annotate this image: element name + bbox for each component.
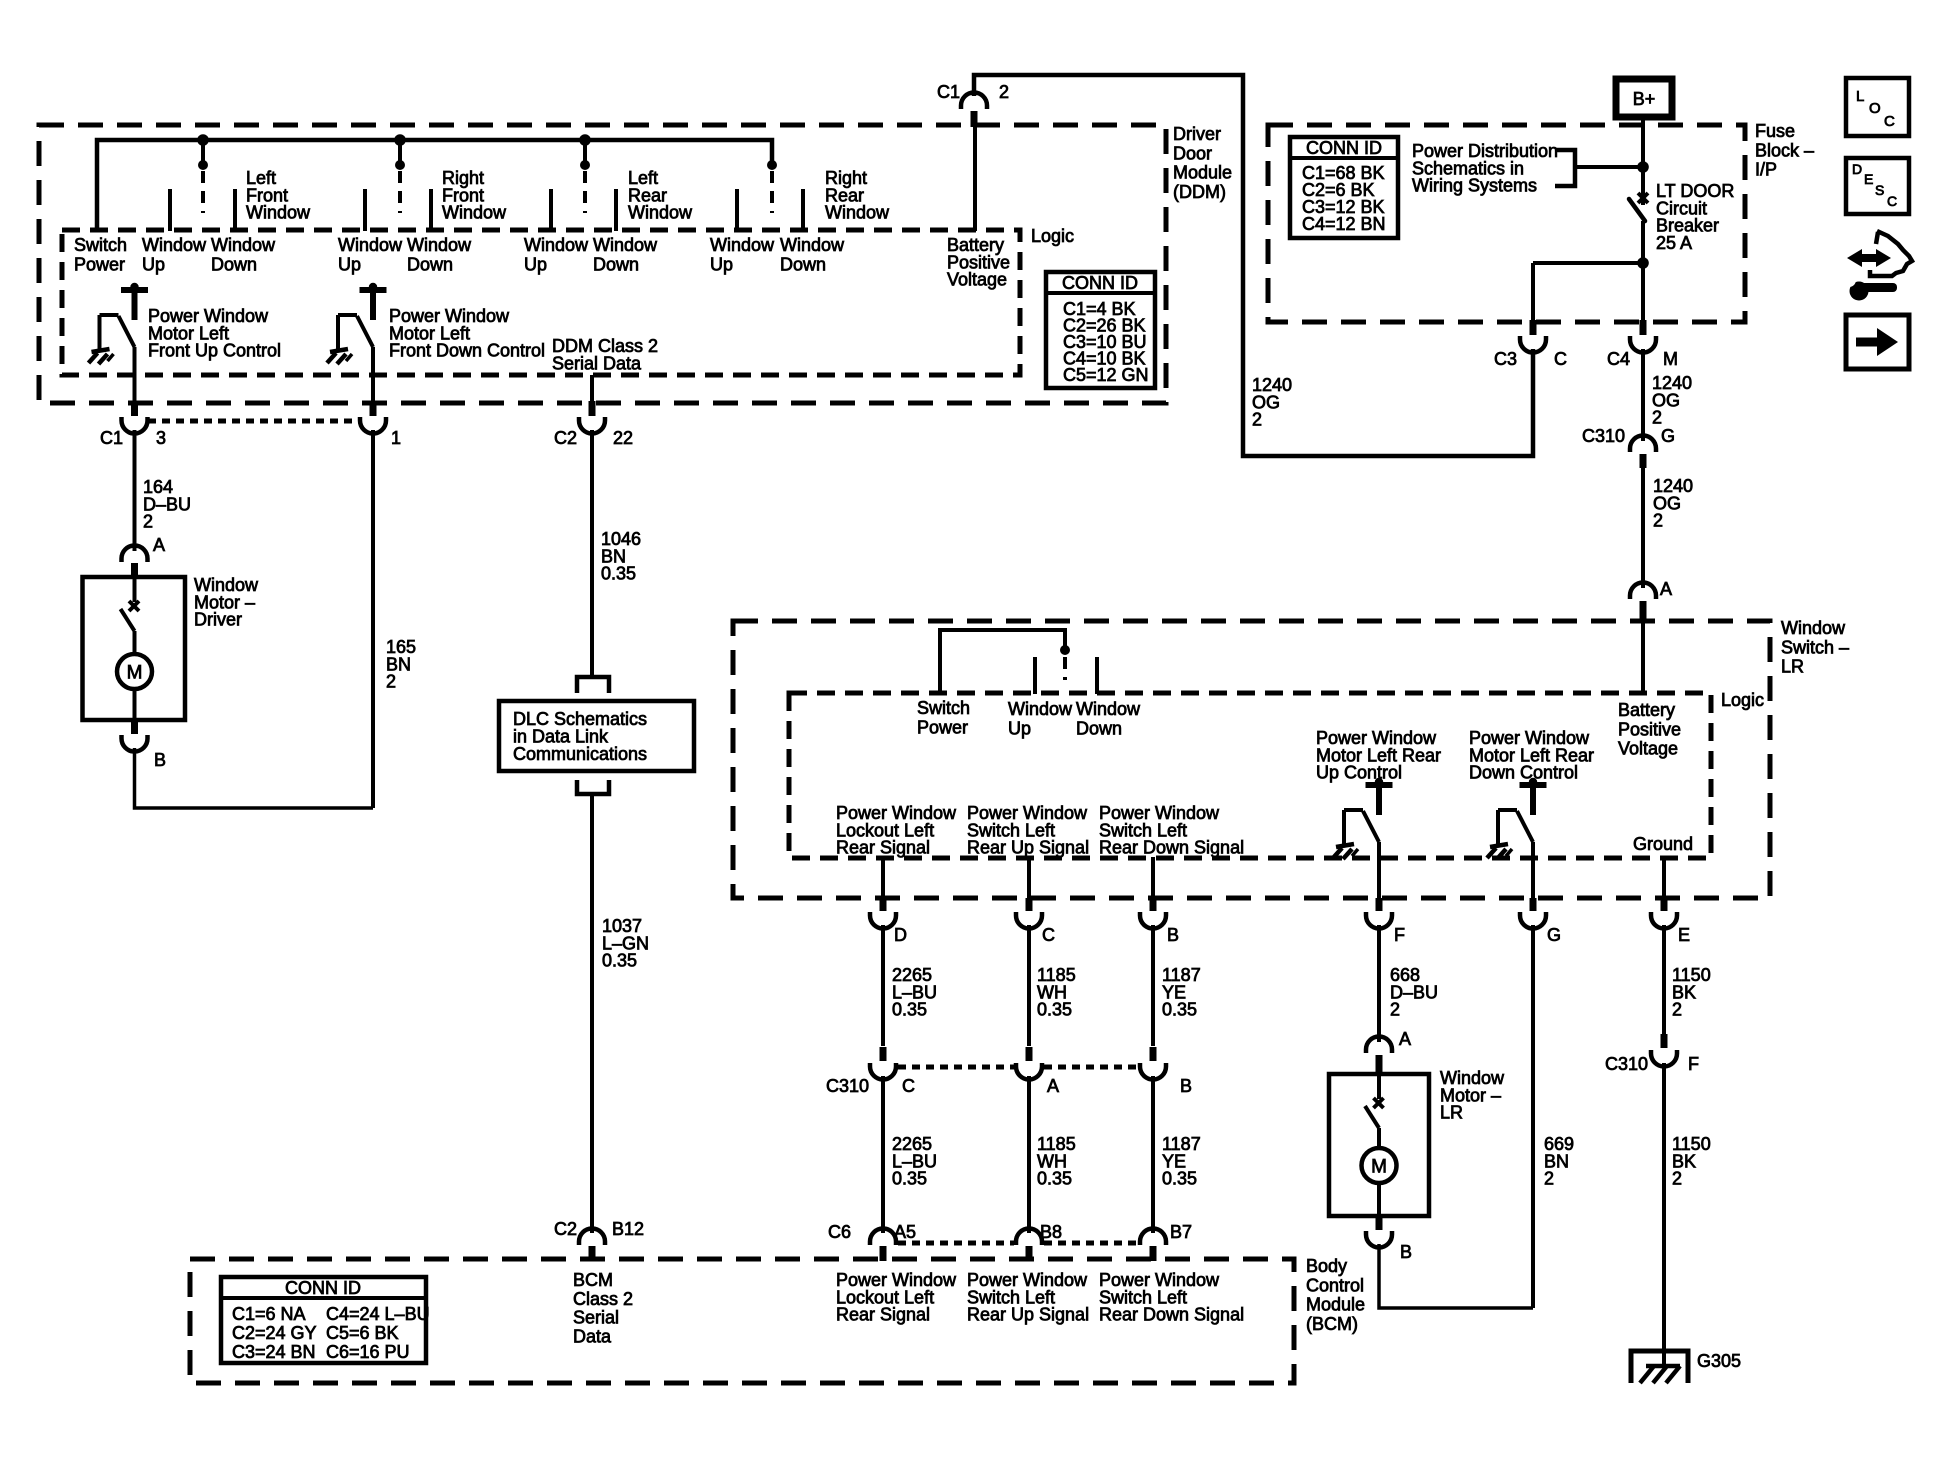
- svg-text:2: 2: [1653, 511, 1663, 531]
- pin label Battery Positive Voltage (DDM): [947, 235, 1010, 290]
- pin labels Window Up / Window Down (WS): [1008, 699, 1141, 739]
- logic box DDM: [62, 230, 1020, 375]
- svg-text:C: C: [1887, 193, 1897, 209]
- wire switch-power bus: [97, 140, 772, 231]
- svg-text:Body: Body: [1306, 1256, 1347, 1276]
- svg-text:3: 3: [156, 428, 166, 448]
- wire 164 D-BU: [133, 430, 137, 540]
- label Power Window Switch Left Rear Down Signal (BCM): [1099, 1270, 1244, 1325]
- label Fuse Block IP: [1755, 121, 1814, 180]
- wire label 164 D-BU 2: [143, 477, 191, 532]
- svg-text:C2=24 GY: C2=24 GY: [232, 1323, 317, 1343]
- label Logic (DDM): [1031, 226, 1074, 246]
- svg-text:Switch: Switch: [74, 235, 127, 255]
- connector C2 pin 22: [554, 401, 633, 448]
- svg-text:Front Up Control: Front Up Control: [148, 341, 281, 361]
- svg-text:Logic: Logic: [1031, 226, 1074, 246]
- svg-text:Module: Module: [1306, 1295, 1365, 1315]
- svg-text:0.35: 0.35: [1037, 1169, 1072, 1189]
- svg-text:Window: Window: [1076, 699, 1141, 719]
- wire motor LR B to 669: [1379, 1244, 1533, 1308]
- svg-text:Window: Window: [1781, 618, 1846, 638]
- svg-text:Communications: Communications: [513, 744, 647, 764]
- switch Power Window Motor Left Front Down Control: [327, 283, 387, 364]
- connector WS pin B: [1140, 898, 1179, 945]
- svg-text:C1: C1: [100, 428, 123, 448]
- module box Fuse Block IP: [1268, 125, 1745, 322]
- svg-text:LR: LR: [1781, 657, 1804, 677]
- motor M LR internals: [1362, 1074, 1397, 1216]
- svg-text:0.35: 0.35: [1162, 1000, 1197, 1020]
- svg-text:0.35: 0.35: [601, 564, 636, 584]
- connector C2 B12 BCM: [554, 1219, 644, 1261]
- svg-text:0.35: 0.35: [1037, 1000, 1072, 1020]
- svg-text:C6=16 PU: C6=16 PU: [326, 1342, 410, 1362]
- wire label 1185 WH 0.35 upper: [1037, 965, 1076, 1020]
- svg-text:Down: Down: [593, 255, 639, 275]
- svg-text:Power: Power: [74, 255, 125, 275]
- connector WS pin F: [1366, 898, 1405, 945]
- switch Motor Left Rear Up Control: [1333, 778, 1393, 859]
- svg-text:LR: LR: [1440, 1103, 1463, 1123]
- label Battery Positive Voltage (WS): [1618, 700, 1681, 759]
- icon LOC box: [1846, 78, 1909, 136]
- svg-text:Window: Window: [593, 235, 658, 255]
- svg-text:Rear Up Signal: Rear Up Signal: [967, 838, 1089, 858]
- svg-text:Up: Up: [338, 255, 361, 275]
- label Left Rear Window: [628, 168, 693, 223]
- label Power Window Switch Left Rear Up Signal (BCM): [967, 1270, 1089, 1325]
- svg-text:C3: C3: [1494, 349, 1517, 369]
- svg-text:Serial: Serial: [573, 1308, 619, 1328]
- label G305: [1697, 1351, 1741, 1371]
- connector B window motor LR: [1366, 1214, 1412, 1262]
- label Left Front Window: [246, 168, 311, 223]
- svg-text:Window: Window: [1008, 699, 1073, 719]
- svg-text:Up: Up: [524, 255, 547, 275]
- wire label 2265 L-BU 0.35 lower: [892, 1134, 937, 1189]
- svg-text:Fuse: Fuse: [1755, 121, 1795, 141]
- reference box DLC Schematics: [499, 701, 694, 771]
- svg-text:Down: Down: [211, 255, 257, 275]
- connector line dotted BCM row: [898, 1241, 1138, 1246]
- wire 1187 YE upper: [1151, 925, 1155, 1046]
- icon arrow box: [1846, 315, 1909, 369]
- label Logic (WS): [1721, 690, 1764, 710]
- svg-text:Rear Signal: Rear Signal: [836, 838, 930, 858]
- svg-text:Down: Down: [1076, 719, 1122, 739]
- svg-text:Up Control: Up Control: [1316, 763, 1402, 783]
- wire DDM pin3: [133, 347, 137, 401]
- svg-text:2: 2: [1544, 1169, 1554, 1189]
- svg-text:0.35: 0.35: [1162, 1169, 1197, 1189]
- pin label Switch Power: [74, 235, 127, 275]
- connector A window motor driver: [122, 535, 166, 578]
- svg-text:C1=6 NA: C1=6 NA: [232, 1304, 306, 1324]
- svg-text:2: 2: [1252, 410, 1262, 430]
- svg-text:CONN ID: CONN ID: [1306, 138, 1382, 158]
- wire 669 BN: [1531, 925, 1535, 1308]
- wire into A: [133, 540, 137, 551]
- connector C310 pin C: [870, 1047, 915, 1096]
- connector C1 pin 2 DDM: [937, 82, 1009, 127]
- svg-text:Ground: Ground: [1633, 834, 1693, 854]
- connector C310 pin F: [1605, 1034, 1699, 1074]
- svg-text:Control: Control: [1306, 1275, 1364, 1295]
- wire 1187 YE lower: [1151, 1076, 1155, 1233]
- svg-text:2: 2: [143, 512, 153, 532]
- svg-text:A5: A5: [894, 1222, 916, 1242]
- label Power Distribution reference: [1412, 141, 1558, 196]
- ground G305: [1631, 1351, 1688, 1383]
- svg-text:Down: Down: [407, 255, 453, 275]
- svg-text:G305: G305: [1697, 1351, 1741, 1371]
- wire stubs bus to dots: [203, 140, 585, 165]
- svg-text:C310: C310: [1582, 426, 1625, 446]
- label Window Switch LR: [1781, 618, 1849, 677]
- svg-text:Window: Window: [524, 235, 589, 255]
- svg-text:Battery: Battery: [1618, 700, 1675, 720]
- svg-text:S: S: [1875, 182, 1884, 198]
- svg-text:M: M: [1663, 349, 1678, 369]
- svg-text:Voltage: Voltage: [947, 270, 1007, 290]
- svg-text:2: 2: [999, 82, 1009, 102]
- svg-text:Window: Window: [710, 235, 775, 255]
- junction breaker output: [1533, 257, 1649, 322]
- svg-text:Window: Window: [246, 203, 311, 223]
- svg-text:C5=12 GN: C5=12 GN: [1063, 365, 1149, 385]
- svg-text:B: B: [1167, 925, 1179, 945]
- connector WS pin E: [1651, 898, 1690, 945]
- svg-text:Window: Window: [628, 203, 693, 223]
- svg-text:Window: Window: [442, 203, 507, 223]
- wire label 1240 OG 2 left: [1252, 375, 1292, 430]
- wire 1037 L-GN: [590, 794, 594, 1233]
- svg-text:Logic: Logic: [1721, 690, 1764, 710]
- svg-text:Up: Up: [142, 255, 165, 275]
- wire 1185 WH lower: [1027, 1076, 1031, 1233]
- connector line dotted C1: [148, 419, 360, 424]
- power symbol B+: [1616, 79, 1672, 117]
- svg-text:E: E: [1864, 171, 1873, 187]
- label LT DOOR Circuit Breaker 25 A: [1656, 181, 1734, 253]
- svg-text:M: M: [1371, 1157, 1387, 1178]
- svg-text:CONN ID: CONN ID: [285, 1278, 361, 1298]
- junction dots on bus: [197, 134, 591, 146]
- svg-text:Window: Window: [142, 235, 207, 255]
- svg-text:Window: Window: [780, 235, 845, 255]
- svg-text:25 A: 25 A: [1656, 233, 1692, 253]
- conn-id table BCM: [221, 1277, 430, 1363]
- svg-text:C: C: [1884, 113, 1895, 130]
- label Ground (WS): [1633, 834, 1693, 854]
- wire label 165 BN 2: [386, 637, 416, 692]
- switch Motor Left Rear Down Control: [1487, 778, 1547, 859]
- label C310 (mid): [826, 1076, 869, 1096]
- svg-text:Up: Up: [710, 255, 733, 275]
- wire label 1240 OG 2 lower: [1653, 476, 1693, 531]
- svg-text:Rear Down Signal: Rear Down Signal: [1099, 838, 1244, 858]
- svg-text:C4: C4: [1607, 349, 1630, 369]
- connector C310 pin B: [1140, 1047, 1192, 1096]
- svg-text:Positive: Positive: [1618, 719, 1681, 739]
- label Front Up Control switch: [148, 306, 281, 361]
- wire 1046 BN: [590, 430, 594, 677]
- svg-text:2: 2: [1672, 1000, 1682, 1020]
- connector WS pin D: [870, 898, 907, 945]
- svg-text:Switch –: Switch –: [1781, 637, 1849, 657]
- svg-text:BCM: BCM: [573, 1270, 613, 1290]
- wire motor B return loop: [135, 748, 374, 808]
- wire bracket to B+ line: [1575, 161, 1649, 173]
- svg-text:Down Control: Down Control: [1469, 763, 1578, 783]
- wire 2265 L-BU upper: [881, 925, 885, 1046]
- icon DESC box: [1846, 158, 1909, 214]
- connector BCM pin A5: [828, 1222, 916, 1261]
- svg-text:Block –: Block –: [1755, 140, 1814, 160]
- connector C1 pin 1: [360, 401, 401, 448]
- svg-text:C: C: [902, 1076, 915, 1096]
- wire label 1240 OG 2 right: [1652, 373, 1692, 428]
- fixed contact terminals: [170, 189, 803, 231]
- svg-text:C6: C6: [828, 1222, 851, 1242]
- wire battery positive into DDM logic: [973, 127, 977, 231]
- connector BCM pin B8: [1016, 1222, 1062, 1261]
- connector C4 pin M: [1607, 320, 1678, 369]
- svg-text:A: A: [153, 535, 165, 555]
- wires out of WS logic: [883, 842, 1664, 900]
- wire C4 to C310: [1641, 349, 1645, 441]
- svg-text:B8: B8: [1040, 1222, 1062, 1242]
- svg-text:A: A: [1047, 1076, 1059, 1096]
- svg-text:F: F: [1688, 1054, 1699, 1074]
- label Right Front Window: [442, 168, 507, 223]
- svg-text:2: 2: [1390, 1000, 1400, 1020]
- svg-text:22: 22: [613, 428, 633, 448]
- off-page bracket power distribution: [1555, 150, 1575, 186]
- svg-text:Front Down Control: Front Down Control: [389, 341, 545, 361]
- svg-text:(DDM): (DDM): [1173, 182, 1226, 202]
- svg-text:Voltage: Voltage: [1618, 739, 1678, 759]
- wire label 1187 YE 0.35 lower: [1162, 1134, 1201, 1189]
- wire C3 feed to DDM: [974, 75, 1533, 456]
- svg-text:C5=6 BK: C5=6 BK: [326, 1323, 399, 1343]
- off-page bracket lower DLC: [577, 780, 609, 794]
- svg-text:(BCM): (BCM): [1306, 1314, 1358, 1334]
- circuit breaker LT DOOR 25A: [1629, 191, 1648, 322]
- label Power Window Switch Left Rear Down Signal (WS): [1099, 803, 1244, 858]
- wire label 1187 YE 0.35 upper: [1162, 965, 1201, 1020]
- svg-text:D: D: [1852, 161, 1862, 177]
- label Power Window Lockout Left Rear Signal (WS): [836, 803, 957, 858]
- svg-text:G: G: [1547, 925, 1561, 945]
- connector C1 pin 3: [100, 401, 166, 448]
- icon double arrow wrench: [1842, 231, 1912, 301]
- svg-text:Down: Down: [780, 255, 826, 275]
- svg-text:2: 2: [1652, 408, 1662, 428]
- svg-text:2: 2: [1672, 1169, 1682, 1189]
- wire label 1185 WH 0.35 lower: [1037, 1134, 1076, 1189]
- rocker switch window up/down: [940, 630, 1097, 694]
- wire label 669 BN 2: [1544, 1134, 1574, 1189]
- wire label 1150 BK 2 lower: [1672, 1134, 1711, 1189]
- svg-text:Up: Up: [1008, 719, 1031, 739]
- svg-text:C2: C2: [554, 428, 577, 448]
- module box DDM (Driver Door Module): [39, 125, 1166, 403]
- label DDM Class 2 Serial Data: [552, 336, 658, 373]
- wire 668 D-BU: [1377, 925, 1381, 1042]
- svg-text:C310: C310: [826, 1076, 869, 1096]
- svg-text:1: 1: [391, 428, 401, 448]
- svg-text:Driver: Driver: [194, 610, 242, 630]
- label Power Window Switch Left Rear Up Signal (WS): [967, 803, 1089, 858]
- svg-text:Window: Window: [825, 203, 890, 223]
- conn-id table DDM: [1046, 272, 1155, 388]
- svg-text:G: G: [1661, 426, 1675, 446]
- connector BCM pin B7: [1140, 1222, 1192, 1261]
- label Front Down Control switch: [389, 306, 545, 361]
- connector C310 pin A: [1016, 1047, 1059, 1096]
- svg-text:B12: B12: [612, 1219, 644, 1239]
- label BCM Class 2 Serial Data: [573, 1270, 633, 1346]
- logic box Window Switch LR: [789, 693, 1711, 858]
- svg-text:C4=12 BN: C4=12 BN: [1302, 214, 1386, 234]
- svg-text:Door: Door: [1173, 143, 1212, 163]
- svg-text:Class 2: Class 2: [573, 1289, 633, 1309]
- svg-text:C1: C1: [937, 82, 960, 102]
- switch Power Window Motor Left Front Up Control: [89, 283, 149, 364]
- svg-text:0.35: 0.35: [892, 1169, 927, 1189]
- label Power Window Motor Left Rear Up Control: [1316, 728, 1441, 783]
- wire C310 to window switch: [1641, 468, 1645, 588]
- svg-text:Driver: Driver: [1173, 124, 1221, 144]
- svg-text:D: D: [894, 925, 907, 945]
- pin labels Window Up/Down row: [142, 235, 845, 275]
- svg-text:A: A: [1660, 579, 1672, 599]
- wire label 1150 BK 2 upper: [1672, 965, 1711, 1020]
- svg-text:Rear Up Signal: Rear Up Signal: [967, 1305, 1089, 1325]
- svg-text:C: C: [1042, 925, 1055, 945]
- component box Window Motor LR: [1329, 1074, 1429, 1216]
- svg-text:O: O: [1869, 100, 1881, 117]
- svg-text:C310: C310: [1605, 1054, 1648, 1074]
- movable contact dashes: [203, 171, 772, 213]
- node dots movable contacts: [198, 160, 777, 170]
- component box Window Motor Driver: [83, 577, 186, 720]
- svg-text:B7: B7: [1170, 1222, 1192, 1242]
- label Window Motor LR: [1440, 1068, 1505, 1123]
- svg-text:2: 2: [386, 672, 396, 692]
- svg-text:0.35: 0.35: [892, 1000, 927, 1020]
- svg-text:C: C: [1554, 349, 1567, 369]
- wire 1150 BK upper: [1662, 925, 1666, 1034]
- wire 165 BN 2: [371, 430, 375, 808]
- svg-text:C2: C2: [554, 1219, 577, 1239]
- label Body Control Module BCM: [1306, 1256, 1365, 1334]
- svg-text:Rear Signal: Rear Signal: [836, 1305, 930, 1325]
- label Power Window Lockout Left Rear Signal (BCM): [836, 1270, 957, 1325]
- connector WS pin G: [1520, 898, 1561, 945]
- svg-text:C3=24 BN: C3=24 BN: [232, 1342, 316, 1362]
- wire 1150 BK lower: [1662, 1063, 1666, 1364]
- wire B+ down: [1641, 117, 1645, 192]
- wire label 2265 L-BU 0.35 upper: [892, 965, 937, 1020]
- connector line dotted C310 mid: [898, 1065, 1138, 1070]
- svg-text:Wiring Systems: Wiring Systems: [1412, 176, 1537, 196]
- svg-text:A: A: [1399, 1029, 1411, 1049]
- wire 1185 WH upper: [1027, 925, 1031, 1046]
- svg-text:I/P: I/P: [1755, 160, 1777, 180]
- label Right Rear Window: [825, 168, 890, 223]
- svg-text:B+: B+: [1633, 89, 1656, 109]
- svg-text:CONN ID: CONN ID: [1062, 273, 1138, 293]
- svg-text:Switch: Switch: [917, 698, 970, 718]
- svg-text:Module: Module: [1173, 163, 1232, 183]
- svg-text:Data: Data: [573, 1326, 612, 1346]
- motor M driver internals: [117, 577, 152, 720]
- svg-text:C4=24 L–BU: C4=24 L–BU: [326, 1304, 430, 1324]
- svg-text:E: E: [1678, 925, 1690, 945]
- svg-text:B: B: [1180, 1076, 1192, 1096]
- connector A window motor LR: [1366, 1029, 1411, 1075]
- label DDM: [1173, 124, 1232, 202]
- label Power Window Motor Left Rear Down Control: [1469, 728, 1594, 783]
- connector C3 pin C: [1494, 320, 1567, 369]
- connector WS pin C: [1016, 898, 1055, 945]
- module box Window Switch LR: [733, 621, 1770, 898]
- svg-text:Window: Window: [211, 235, 276, 255]
- label Window Motor Driver: [194, 575, 259, 630]
- wire label 668 D-BU 2: [1390, 965, 1438, 1020]
- module box BCM: [190, 1259, 1294, 1383]
- connector C310 pin G: [1582, 426, 1675, 468]
- off-page bracket upper DLC: [577, 677, 609, 693]
- svg-text:B: B: [154, 750, 166, 770]
- wire label 1037 L-GN 0.35: [602, 916, 649, 971]
- svg-text:L: L: [1856, 88, 1864, 105]
- svg-text:Rear Down Signal: Rear Down Signal: [1099, 1305, 1244, 1325]
- pin label Switch Power (WS): [917, 698, 970, 738]
- svg-text:M: M: [127, 663, 143, 684]
- wire DDM pin1: [371, 347, 375, 401]
- wire battery positive into WS logic: [1641, 622, 1645, 694]
- svg-text:Power: Power: [917, 718, 968, 738]
- svg-text:F: F: [1394, 925, 1405, 945]
- wire label 1046 BN 0.35: [601, 529, 641, 584]
- svg-text:Window: Window: [338, 235, 403, 255]
- svg-text:Serial Data: Serial Data: [552, 353, 642, 373]
- wire DDM serial data: [590, 375, 594, 401]
- connector B window motor driver: [122, 718, 167, 770]
- svg-text:Window: Window: [407, 235, 472, 255]
- conn-id table Fuse Block: [1290, 137, 1398, 238]
- connector A window switch LR: [1630, 579, 1672, 623]
- wire 2265 L-BU lower: [881, 1076, 885, 1233]
- svg-text:0.35: 0.35: [602, 951, 637, 971]
- svg-text:B: B: [1400, 1242, 1412, 1262]
